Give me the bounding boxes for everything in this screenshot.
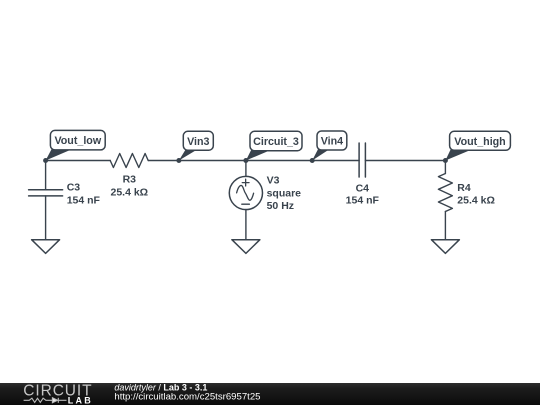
node label Circuit_3: [246, 131, 302, 160]
wire main horizontal right: [365, 160, 445, 162]
svg-text:V3: V3: [267, 175, 280, 187]
node Vin3 junction dot: [176, 158, 181, 163]
value label V3: [267, 175, 302, 212]
svg-text:Vin3: Vin3: [187, 136, 209, 148]
value label R3: [110, 174, 148, 199]
svg-text:Circuit_3: Circuit_3: [253, 136, 299, 148]
node label Vin3: [179, 131, 213, 160]
svg-text:Vin4: Vin4: [321, 136, 343, 148]
node label Vin4: [312, 131, 347, 161]
node Vout_low junction dot: [43, 158, 48, 163]
svg-text:C3: C3: [67, 182, 81, 194]
value label C3: [67, 182, 101, 207]
resistor R3: [110, 154, 148, 168]
capacitor C3: [29, 190, 63, 196]
svg-text:25.4 kΩ: 25.4 kΩ: [110, 186, 148, 198]
svg-text:R4: R4: [457, 182, 471, 194]
wire C3 branch top: [45, 161, 47, 190]
wire main horizontal middle: [148, 160, 359, 162]
wire V3 branch top: [245, 161, 247, 177]
wire R4 branch bottom: [444, 212, 446, 240]
node Vin4 junction dot: [310, 158, 315, 163]
footer logo schematic squiggle with resistor and diode: [24, 398, 67, 403]
node Circuit_3 junction dot: [243, 158, 248, 163]
value label R4: [457, 182, 495, 207]
ground for C3: [32, 240, 60, 254]
ground for V3: [232, 240, 260, 254]
capacitor C4: [359, 143, 365, 177]
svg-text:square: square: [267, 187, 302, 199]
svg-text:LAB: LAB: [68, 395, 93, 405]
value label C4: [346, 183, 380, 207]
svg-text:C4: C4: [356, 183, 370, 195]
node label Vout_low: [46, 130, 106, 160]
wire main horizontal left: [46, 160, 111, 162]
svg-text:R3: R3: [123, 174, 137, 186]
wire R4 branch top: [444, 161, 446, 174]
wire C3 branch bottom: [45, 196, 47, 240]
voltage source V3: [229, 176, 262, 209]
svg-text:154 nF: 154 nF: [346, 195, 380, 207]
svg-text:25.4 kΩ: 25.4 kΩ: [457, 195, 495, 207]
node Vout_high junction dot: [443, 158, 448, 163]
svg-text:Vout_high: Vout_high: [454, 136, 505, 148]
node label Vout_high: [445, 131, 510, 160]
svg-text:154 nF: 154 nF: [67, 194, 101, 206]
svg-text:Vout_low: Vout_low: [54, 135, 101, 147]
ground for R4: [431, 240, 459, 254]
svg-text:50 Hz: 50 Hz: [267, 200, 294, 212]
resistor R4: [438, 174, 452, 212]
wire V3 branch bottom: [245, 209, 247, 239]
footer bar: [0, 383, 540, 405]
svg-text:http://circuitlab.com/c25tsr69: http://circuitlab.com/c25tsr6957t25: [114, 392, 260, 403]
